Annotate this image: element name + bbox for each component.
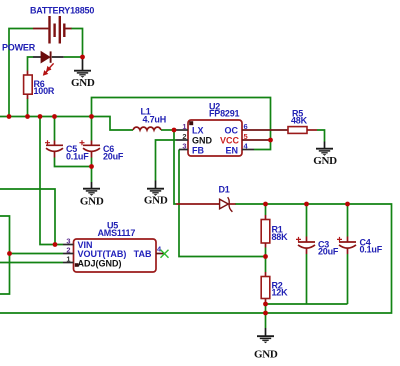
- svg-text:AMS1117: AMS1117: [98, 228, 136, 238]
- svg-text:GND: GND: [254, 349, 278, 361]
- junction node VCC rail: [268, 138, 273, 143]
- wire R1 bottom to FB node: [265, 248, 267, 257]
- svg-text:TAB: TAB: [134, 249, 152, 259]
- wire C4 bottom lead: [347, 254, 349, 304]
- wire R2 top lead: [265, 257, 267, 273]
- junction node output C4: [345, 202, 350, 207]
- resistor R5 labels: [291, 109, 308, 126]
- svg-text:ADJ(GND): ADJ(GND): [78, 258, 122, 268]
- svg-text:48K: 48K: [291, 116, 308, 126]
- wire VOUT node upper exit: [0, 216, 10, 254]
- battery value label BATTERY18850: [30, 6, 94, 16]
- svg-text:GND: GND: [313, 155, 337, 167]
- wire C3 bottom lead: [306, 254, 308, 304]
- svg-text:FB: FB: [192, 146, 204, 156]
- wire caps join down to GND: [91, 167, 93, 183]
- capacitor C3 labels: [318, 240, 339, 257]
- U5 reference labels: [98, 221, 136, 239]
- U5 pin numbers: [66, 237, 162, 264]
- junction node battery bus: [7, 114, 12, 119]
- junction node VIN drop bus: [38, 114, 43, 119]
- U2 pin names: [192, 126, 239, 156]
- junction node C6 bus: [89, 114, 94, 119]
- svg-text:0.1uF: 0.1uF: [360, 245, 383, 255]
- junction node C5 C6 bottom: [89, 164, 94, 169]
- junction node C5 bus: [52, 114, 57, 119]
- svg-text:12K: 12K: [272, 288, 289, 298]
- svg-text:FP8291: FP8291: [209, 109, 240, 119]
- junction node LED cathode GND: [80, 55, 85, 60]
- svg-text:BATTERY18850: BATTERY18850: [30, 6, 94, 16]
- U5 pin stubs: [63, 245, 74, 263]
- ground at U2 GND pin: [144, 181, 168, 207]
- wire D1 output line across and down right side to bottom rail: [0, 204, 392, 313]
- wire L1 to LX node: [161, 129, 174, 131]
- wire U2 GND pin to ground: [156, 140, 177, 181]
- U2 pin stubs right: OC run, VCC run, EN run: [242, 130, 288, 150]
- svg-text:3: 3: [66, 237, 70, 246]
- capacitor C6 labels: [103, 144, 124, 162]
- capacitor C4 labels: [360, 238, 383, 255]
- svg-text:88K: 88K: [272, 232, 289, 242]
- svg-text:1: 1: [66, 255, 70, 264]
- resistor R6: [24, 71, 33, 100]
- svg-text:6: 6: [244, 122, 248, 131]
- wire battery left lead to bus: [9, 29, 33, 117]
- battery BATTERY18850: [33, 16, 72, 44]
- wire LX node down to D1 anode: [174, 130, 176, 204]
- U2 reference labels: [209, 102, 240, 119]
- wire top rail bus to VCC/EN of U2: [92, 98, 271, 150]
- junction node output R1: [263, 202, 268, 207]
- svg-text:20uF: 20uF: [103, 152, 124, 162]
- capacitor C5: [45, 140, 63, 157]
- wire R5 right to ground: [317, 130, 325, 142]
- svg-text:GND: GND: [144, 195, 168, 207]
- svg-text:GND: GND: [71, 77, 95, 89]
- wire VOUT node lower exit: [0, 254, 10, 295]
- inductor L1 labels: [141, 107, 167, 125]
- wire LED anode to R6 top: [28, 57, 34, 71]
- ground below C5 C6: [80, 182, 104, 208]
- capacitor C3: [296, 237, 315, 255]
- inductor L1: [133, 127, 161, 130]
- wire battery right lead down to LED node: [71, 29, 83, 58]
- wire left feed to U5 VIN: [0, 189, 63, 245]
- diode D1 label: [219, 185, 230, 195]
- ground battery/LED node: [71, 57, 95, 89]
- capacitor C6: [80, 140, 101, 157]
- svg-text:2: 2: [66, 246, 70, 255]
- diode D1 schottky: [176, 197, 236, 212]
- op-amp U2 boost converter FP8291 box: [188, 120, 242, 156]
- wire main bus VIN rail: [0, 117, 133, 131]
- capacitor C4: [337, 237, 356, 255]
- svg-text:20uF: 20uF: [318, 247, 339, 257]
- wire R2 bottom to ground node: [265, 303, 267, 328]
- svg-text:3: 3: [182, 142, 186, 151]
- wire C4 top lead: [347, 204, 349, 237]
- svg-text:POWER: POWER: [2, 43, 36, 53]
- resistor R2: [261, 272, 270, 304]
- svg-text:LX: LX: [192, 126, 204, 136]
- wire C5 top lead: [54, 117, 56, 141]
- LED light arrows: [44, 63, 54, 74]
- U2 pin numbers: [182, 122, 248, 151]
- resistor R5: [288, 127, 317, 134]
- wire ADJ pin to left edge: [0, 262, 63, 264]
- svg-text:0.1uF: 0.1uF: [66, 152, 89, 162]
- wire bus down to U5 VIN: [40, 117, 55, 245]
- junction node bottom rail GND: [263, 311, 268, 316]
- wire C5 bottom to C6 bottom join: [55, 158, 92, 167]
- svg-text:EN: EN: [225, 146, 238, 156]
- svg-text:4.7uH: 4.7uH: [143, 115, 167, 125]
- wire C3 C4 bottom line: [266, 303, 348, 305]
- svg-text:D1: D1: [219, 185, 230, 195]
- U2 pin stubs left: [176, 130, 188, 150]
- U5 TAB no-connect X: [161, 250, 169, 258]
- wire R6 bottom to bus: [27, 99, 29, 117]
- svg-text:VCC: VCC: [220, 136, 240, 146]
- svg-text:100R: 100R: [34, 86, 55, 96]
- junction node R6 bus: [25, 114, 30, 119]
- junction node U5 VIN: [53, 242, 58, 247]
- svg-text:GND: GND: [80, 196, 104, 208]
- wire C3 top lead: [306, 204, 308, 237]
- resistor R1 labels: [272, 225, 289, 243]
- capacitor C5 labels: [66, 144, 89, 162]
- LED D? power indicator: [33, 51, 64, 62]
- resistor R2 labels: [272, 281, 289, 298]
- wire C6 top lead: [91, 117, 93, 141]
- wire VOUT node to U5 pin2: [10, 253, 64, 255]
- resistor R6 labels: [34, 79, 55, 96]
- wire LED cathode to GND node: [64, 56, 83, 58]
- resistor R1: [261, 215, 270, 248]
- net label POWER: [2, 43, 36, 53]
- junction node VOUT: [7, 251, 12, 256]
- junction node output C3: [304, 202, 309, 207]
- voltage regulator U5 AMS1117 box: [74, 239, 157, 272]
- wire U2 FB pin to divider midpoint: [179, 150, 266, 257]
- wire R1 top lead: [265, 204, 267, 215]
- svg-text:1: 1: [182, 122, 186, 131]
- svg-text:5: 5: [244, 132, 248, 141]
- junction node LX L1 D1: [172, 128, 177, 133]
- svg-text:OC: OC: [225, 126, 239, 136]
- junction node FB divider: [263, 254, 268, 259]
- svg-text:GND: GND: [192, 136, 213, 146]
- U5 pin names: [78, 240, 152, 268]
- ground bottom rail: [254, 328, 278, 361]
- svg-text:2: 2: [182, 132, 186, 141]
- ground at R5: [313, 142, 337, 168]
- junction node R2 bottom caps: [263, 302, 268, 307]
